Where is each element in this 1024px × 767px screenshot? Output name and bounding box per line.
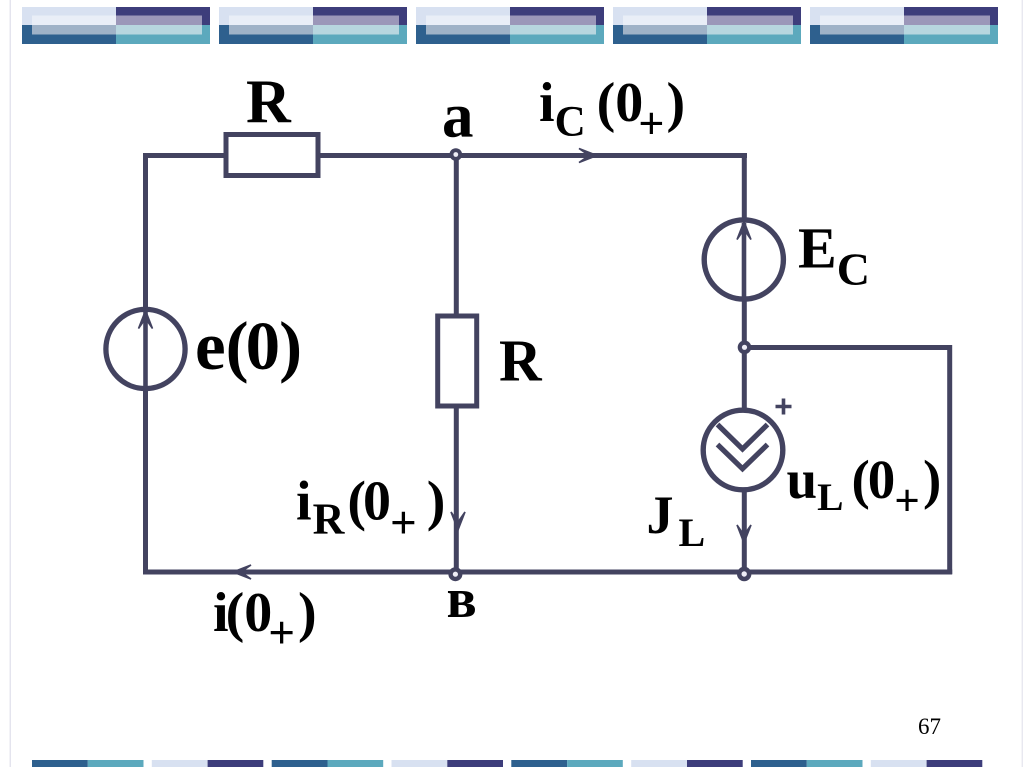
- svg-text:iR(0+): iR(0+): [296, 471, 445, 550]
- svg-text:R: R: [499, 328, 543, 394]
- node dot bottom right: [737, 567, 751, 581]
- decorative bottom border bar: [32, 760, 982, 767]
- voltage source e(0) circle: [106, 309, 185, 388]
- svg-text:i(0+): i(0+): [213, 582, 317, 659]
- resistor R2 (vertical, middle branch): [438, 316, 477, 406]
- e(0) source arrow shaft: [143, 312, 148, 390]
- current arrow i(0+) on bottom wire (left): [233, 565, 251, 579]
- e(0) source arrowhead: [139, 311, 153, 329]
- source EC circle: [704, 220, 783, 299]
- wire: right vertical branch: [742, 156, 747, 573]
- wire: far right vertical: [947, 345, 952, 574]
- EC source arrowhead: [737, 222, 751, 240]
- svg-text:в: в: [447, 568, 477, 630]
- JL chevron 1: [718, 425, 768, 450]
- wire: top horizontal: [143, 153, 747, 158]
- svg-text:JL: JL: [647, 485, 706, 555]
- current arrow iR(0+) on middle branch: [451, 512, 465, 530]
- wire: right horizontal to far right: [744, 345, 952, 350]
- EC source arrow shaft: [742, 223, 747, 300]
- inductor current source JL circle: [703, 410, 783, 490]
- plus polarity mark of uL: [776, 399, 792, 415]
- wire: middle vertical branch: [454, 156, 459, 573]
- wire: left vertical branch: [143, 153, 148, 574]
- svg-text:iC(0+): iC(0+): [539, 72, 685, 149]
- current arrow iC(0+) on top wire: [579, 149, 597, 163]
- junction node on right branch: [738, 341, 752, 355]
- JL chevron 2: [718, 445, 768, 469]
- decorative top border bar: [22, 7, 998, 44]
- node b dot (bottom middle): [448, 567, 462, 581]
- wire: bottom horizontal: [143, 570, 952, 575]
- svg-text:uL(0+): uL(0+): [787, 449, 942, 526]
- resistor R1 (horizontal, top left): [226, 135, 318, 176]
- svg-text:67: 67: [918, 714, 941, 739]
- current arrow on JL branch (down): [737, 525, 751, 543]
- node a dot: [450, 148, 463, 161]
- slide edge faint left line: [10, 0, 11, 767]
- svg-text:R: R: [246, 69, 292, 137]
- svg-text:e(0): e(0): [195, 308, 302, 384]
- slide edge faint right line: [1022, 0, 1023, 767]
- svg-text:EC: EC: [798, 216, 870, 295]
- svg-text:a: a: [442, 80, 474, 150]
